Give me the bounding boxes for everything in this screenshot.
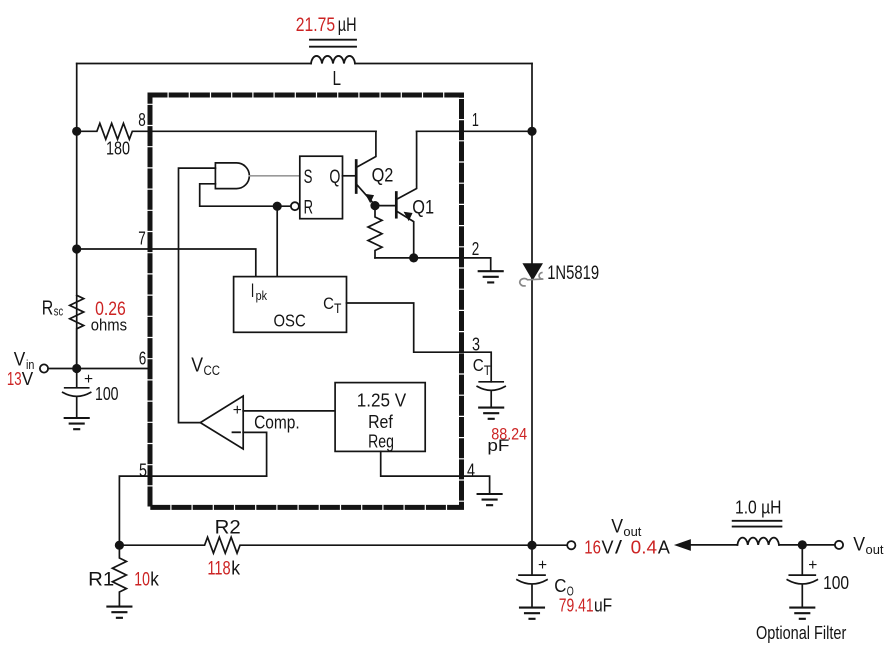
svg-text:Q2: Q2: [372, 166, 394, 187]
resistor R1: [112, 545, 126, 606]
svg-text:C: C: [554, 575, 566, 596]
ground pin 2: [479, 271, 503, 282]
svg-text:CC: CC: [204, 363, 221, 378]
svg-text:1.0 µH: 1.0 µH: [735, 498, 781, 518]
svg-text:R1: R1: [88, 569, 114, 591]
pin 7: [138, 228, 146, 248]
svg-text:10: 10: [134, 570, 150, 591]
svg-text:1.25 V: 1.25 V: [357, 390, 407, 411]
svg-text:+: +: [84, 371, 93, 388]
capacitor 100 input: [63, 369, 91, 419]
ground filter cap: [790, 608, 814, 619]
node junction R net: [273, 202, 282, 211]
wire left rail: [76, 64, 78, 369]
svg-text:k: k: [150, 570, 159, 591]
svg-text:µH: µH: [338, 15, 357, 36]
svg-text:100: 100: [95, 384, 119, 404]
svg-text:Ref: Ref: [368, 411, 393, 432]
ground R1: [107, 607, 131, 618]
node Vout output: [527, 541, 536, 550]
svg-text:R: R: [304, 197, 313, 219]
svg-text:Q: Q: [329, 166, 340, 188]
svg-text:+: +: [808, 557, 817, 574]
pin 4 wire: [381, 451, 490, 494]
svg-text:21.75: 21.75: [296, 15, 335, 36]
svg-text:T: T: [484, 362, 491, 378]
wire AND upper input from comparator output: [179, 168, 216, 423]
svg-text:V: V: [602, 537, 615, 558]
svg-text:Reg: Reg: [368, 431, 394, 452]
value 88.24 pF: [487, 424, 527, 454]
pin 1 wire: [417, 130, 532, 132]
capacitor CT: [477, 382, 505, 408]
svg-text:0.4: 0.4: [631, 537, 657, 558]
resistor R2: [119, 537, 532, 553]
svg-text:V: V: [191, 355, 203, 377]
node Vin terminal: [40, 364, 48, 372]
svg-text:OSC: OSC: [274, 310, 306, 330]
svg-text:7: 7: [138, 228, 146, 248]
svg-text:V: V: [853, 534, 865, 556]
svg-text:+: +: [538, 557, 547, 574]
resistor Q2 emitter pulldown: [368, 206, 382, 258]
svg-text:8: 8: [138, 110, 146, 130]
wire filter inductor to terminal: [779, 544, 835, 546]
svg-text:1: 1: [472, 110, 479, 130]
inductor L: [311, 56, 355, 64]
svg-text:Optional Filter: Optional Filter: [756, 623, 846, 643]
svg-text:Q1: Q1: [412, 198, 434, 219]
AND gate: [215, 163, 249, 189]
wire AND lower input from R net: [200, 184, 291, 206]
svg-text:100: 100: [823, 573, 849, 593]
wire right rail: [531, 64, 533, 546]
svg-text:I: I: [251, 280, 255, 302]
node Vout filter terminal: [835, 541, 843, 549]
pin 2 wire: [375, 258, 491, 271]
pin 8: [138, 110, 146, 130]
resistor Rsc: [70, 295, 84, 368]
wire top rail right segment: [355, 63, 532, 65]
svg-text:+: +: [233, 402, 242, 419]
svg-text:C: C: [323, 294, 334, 313]
svg-text:6: 6: [139, 348, 147, 368]
svg-text:Comp.: Comp.: [254, 411, 300, 432]
ground pin 4: [478, 494, 502, 505]
transistor Q2: [343, 175, 357, 177]
arrow to output: [677, 540, 691, 549]
svg-text:79.41: 79.41: [559, 596, 594, 616]
value label 21.75 uH: [296, 15, 357, 36]
resistor 180: [77, 123, 376, 139]
svg-text:13: 13: [7, 368, 22, 389]
svg-text:V: V: [22, 368, 34, 389]
svg-text:out: out: [866, 542, 884, 557]
capacitor 100 filter: [787, 545, 817, 608]
svg-text:pk: pk: [256, 288, 268, 303]
svg-text:k: k: [231, 559, 240, 580]
IC boundary dashed box: [150, 95, 462, 507]
svg-text:1N5819: 1N5819: [547, 263, 599, 284]
svg-text:118: 118: [207, 559, 230, 580]
svg-text:5: 5: [139, 460, 147, 480]
svg-text:A: A: [658, 537, 671, 558]
svg-text:uF: uF: [594, 596, 612, 616]
label L: [333, 68, 342, 90]
wire AND output (gray): [249, 175, 299, 177]
op-amp comparator: [200, 396, 243, 449]
svg-text:V: V: [611, 516, 623, 538]
svg-text:3: 3: [472, 334, 480, 354]
node junction pin 7 rail: [72, 244, 81, 253]
wire arrow to filter inductor: [690, 544, 738, 546]
svg-text:pF: pF: [487, 436, 509, 455]
wire comparator + input to ref: [243, 410, 335, 412]
svg-text:16: 16: [584, 537, 601, 558]
diode 1N5819: [524, 264, 542, 279]
oscillator OSC: [234, 277, 347, 333]
latch S-R: [300, 156, 343, 219]
wire comparator - input to pin 5: [243, 432, 266, 476]
pin 7 wire: [77, 249, 256, 277]
svg-text:S: S: [304, 166, 313, 188]
transistor Q1: [370, 201, 379, 210]
label VCC: [191, 355, 220, 378]
ground CT: [479, 408, 503, 419]
wire oscillator CT to pin 3: [347, 303, 492, 382]
svg-text:R2: R2: [215, 517, 241, 539]
wire top rail left segment: [77, 63, 311, 65]
ground input cap: [65, 418, 89, 429]
svg-text:180: 180: [106, 139, 130, 159]
svg-text:4: 4: [467, 460, 475, 480]
node junction pin 8 rail: [72, 127, 81, 136]
svg-text:sc: sc: [54, 304, 64, 319]
pin 6: [139, 348, 147, 368]
label Optional Filter: [756, 623, 846, 643]
svg-text:L: L: [333, 68, 342, 90]
ground CO: [520, 608, 544, 619]
svg-text:C: C: [473, 355, 484, 375]
inductor 1.0 uH filter: [737, 538, 779, 545]
svg-text:T: T: [334, 301, 341, 316]
reference 1.25V Ref Reg: [335, 383, 425, 452]
pin 3: [472, 334, 491, 377]
svg-text:2: 2: [472, 239, 480, 259]
pin 5 wire: [119, 476, 266, 545]
svg-text:R: R: [42, 297, 54, 320]
wire R net to oscillator: [276, 206, 278, 276]
svg-text:ohms: ohms: [91, 316, 127, 335]
svg-text:/: /: [615, 537, 623, 558]
R input bubble: [291, 202, 299, 210]
capacitor CO: [517, 545, 547, 607]
